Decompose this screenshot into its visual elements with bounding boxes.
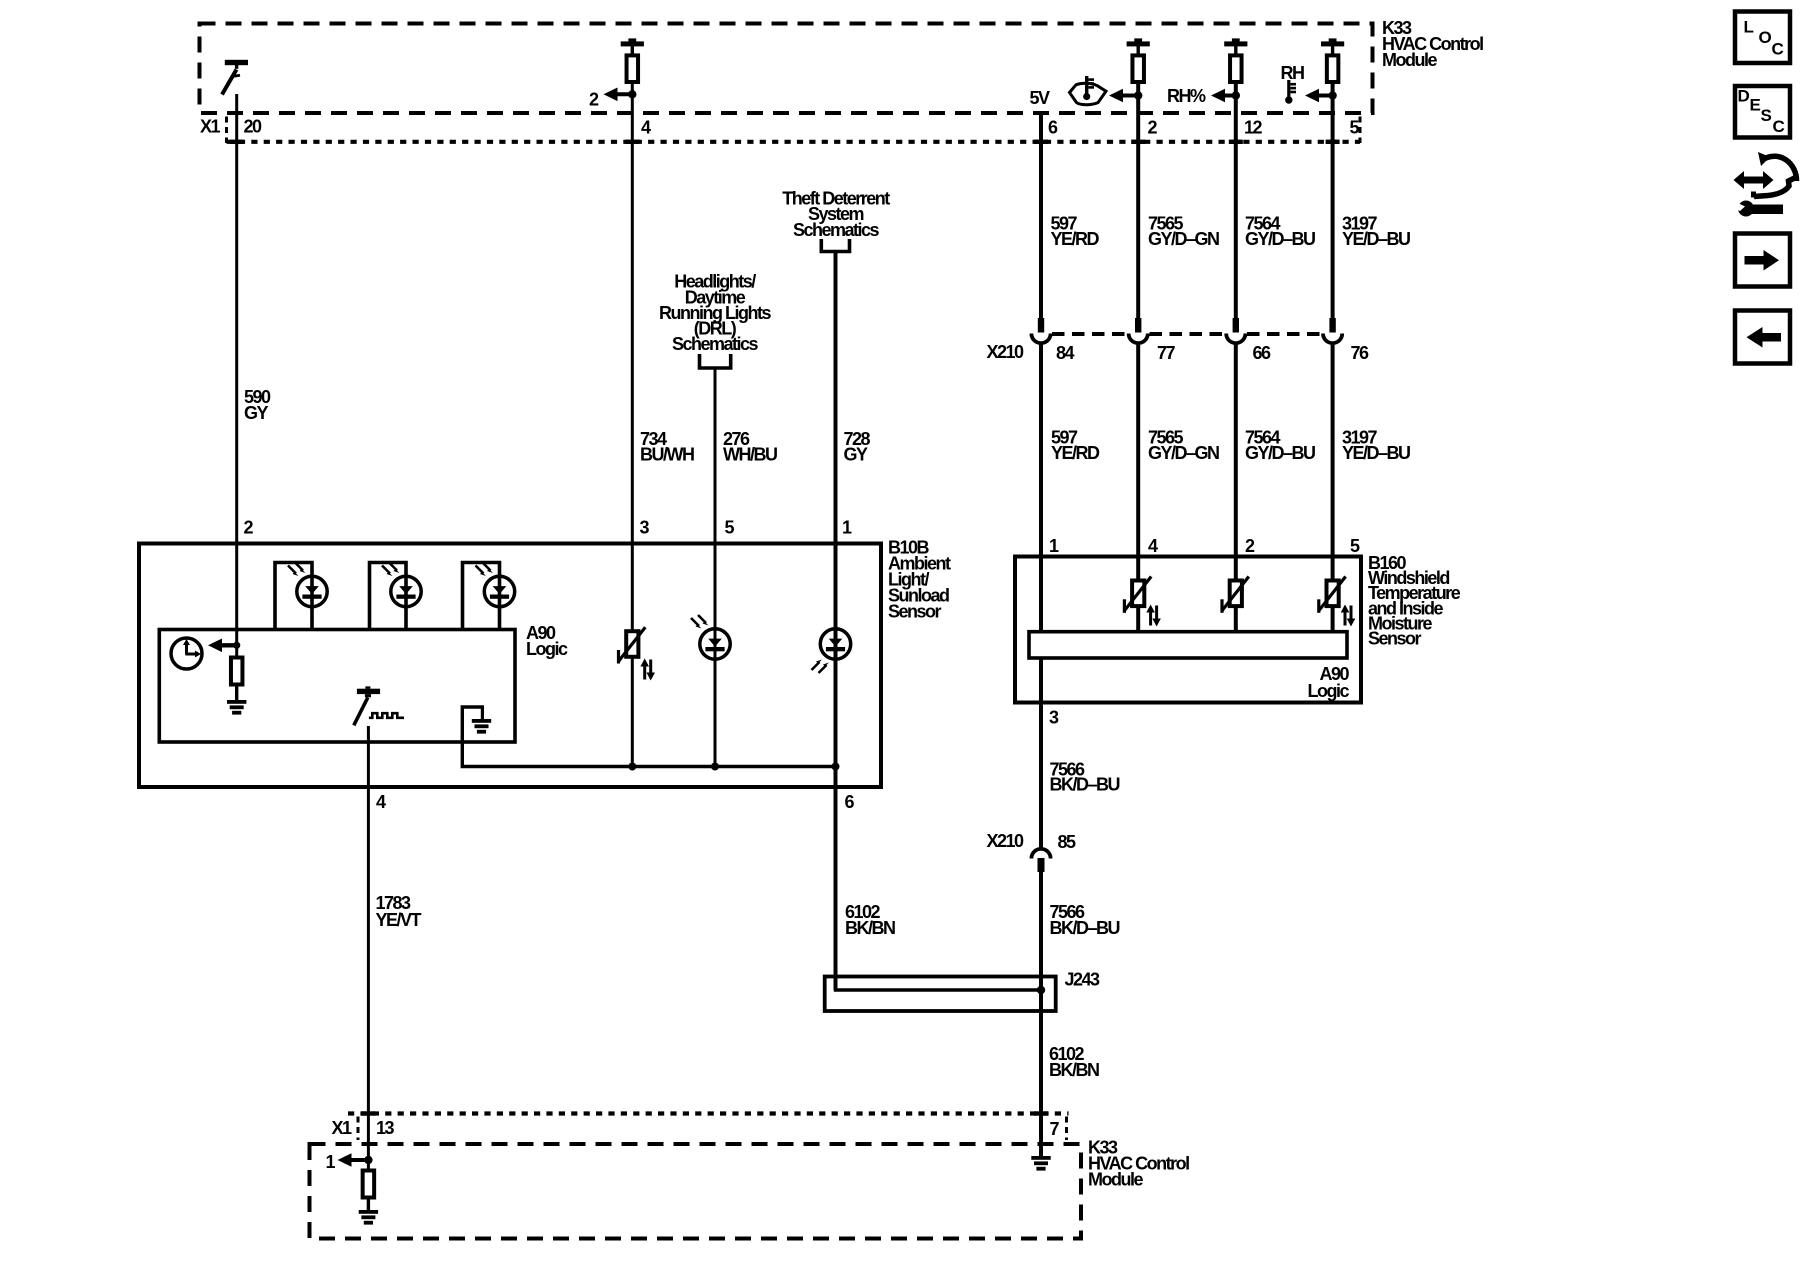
svg-text:76: 76 <box>1351 343 1370 363</box>
svg-text:L: L <box>1744 18 1754 37</box>
resistor (RH% pin 12) <box>1224 38 1247 82</box>
svg-text:RH: RH <box>1281 63 1304 83</box>
photodiode loop 2 <box>370 563 407 630</box>
rays sunload <box>691 615 709 629</box>
thermistor arrows 3 <box>1341 605 1356 627</box>
svg-text:X210: X210 <box>987 342 1025 362</box>
arrow to RH icon <box>1305 89 1333 103</box>
connector X1 dotted line (bottom) <box>348 1111 1069 1115</box>
half box to DRL schematics <box>700 354 731 368</box>
X210 terminal 85 <box>1031 849 1050 872</box>
connector X1 divider left (bottom) <box>357 1117 360 1141</box>
switch S (ignition) top left <box>222 60 248 95</box>
button arrow left <box>1735 311 1790 364</box>
A90 logic bar <box>1029 632 1347 658</box>
svg-text:6: 6 <box>1048 118 1058 138</box>
svg-text:1: 1 <box>1049 536 1059 556</box>
svg-text:728GY: 728GY <box>844 429 871 465</box>
tick on bottom X1 row wire 1783 <box>361 1111 375 1115</box>
wire 3197 YE/D-BU lower <box>1331 344 1335 633</box>
resistor (RH pin 5) <box>1321 38 1344 82</box>
thermistor arrows 1 <box>1146 605 1161 627</box>
svg-text:S: S <box>1761 106 1772 125</box>
svg-text:1: 1 <box>842 518 852 538</box>
svg-text:3: 3 <box>640 518 650 538</box>
node dot bus/728 <box>832 763 840 771</box>
PWM switch in A90 <box>354 686 404 725</box>
svg-text:2: 2 <box>244 518 254 538</box>
wire 276 WH/BU (DRL to B10B pin 5 down to bus) <box>714 368 717 768</box>
svg-text:85: 85 <box>1058 832 1077 852</box>
X210 terminal 76 <box>1323 318 1342 343</box>
wire 7564 GY/D-BU upper <box>1234 84 1238 319</box>
photodiode loop 3 <box>463 563 500 630</box>
wire 7565 GY/D-GN upper <box>1136 84 1140 319</box>
photodiode loop 1 <box>275 563 312 630</box>
tick on X1 row wire 3197 <box>1326 140 1340 144</box>
X210 terminal 84 <box>1031 318 1050 343</box>
X210 dashes between terminals <box>1052 332 1128 336</box>
wire 7564 GY/D-BU lower <box>1234 344 1238 633</box>
svg-text:5: 5 <box>1350 118 1360 138</box>
svg-text:X210: X210 <box>987 831 1025 851</box>
ground bars on hook <box>472 719 491 734</box>
svg-text:E: E <box>1750 96 1761 115</box>
arrow to 1 <box>338 1153 369 1167</box>
connector X1 dotted line (top) <box>227 140 1361 144</box>
rays 728 (lower left) <box>812 660 830 674</box>
tick on X1 row wire 7564 <box>1229 140 1243 144</box>
svg-text:84: 84 <box>1056 343 1075 363</box>
ground under A90 resistor <box>227 700 246 715</box>
svg-text:4: 4 <box>376 792 386 812</box>
connector X1 divider right (bottom) <box>1065 1117 1068 1141</box>
node dot <box>1232 91 1240 99</box>
X210 terminal 66 <box>1226 318 1245 343</box>
svg-text:2: 2 <box>589 89 599 109</box>
svg-text:J243: J243 <box>1065 969 1101 989</box>
node at clock arrow <box>233 642 240 649</box>
photodiode D3 <box>484 576 514 606</box>
photodiode D1 <box>297 576 327 606</box>
RH thermometer icon <box>1285 80 1296 104</box>
photodiode 728 <box>820 629 850 659</box>
resistor R (pin 4 sense) <box>621 38 644 82</box>
svg-text:4: 4 <box>641 118 651 138</box>
thermistor windshield temp <box>1123 577 1151 613</box>
svg-text:5V: 5V <box>1030 88 1051 108</box>
wire 590 GY (pin 20 to B10B pin 2) <box>235 94 238 658</box>
tick on X1 row wire 597 <box>1034 140 1048 144</box>
svg-text:77: 77 <box>1157 343 1176 363</box>
rays D3 <box>476 563 494 577</box>
module box K33 (top) <box>200 24 1373 114</box>
svg-text:2: 2 <box>1245 536 1255 556</box>
svg-text:7: 7 <box>1050 1119 1060 1139</box>
arrow to windshield icon <box>1109 89 1138 103</box>
ground K33 pin 7 <box>1031 1156 1050 1171</box>
svg-text:C: C <box>1772 40 1784 59</box>
A90 logic box <box>159 630 515 743</box>
photodiode D2 <box>391 576 421 606</box>
ground stub under A90 resistor <box>235 687 238 701</box>
chassis ground hook in A90 <box>462 707 835 767</box>
rays D1 <box>288 563 306 577</box>
svg-text:Headlights/DaytimeRunning Ligh: Headlights/DaytimeRunning Lights(DRL)Sch… <box>659 272 771 354</box>
wire 7565 GY/D-GN lower <box>1136 344 1140 633</box>
ground stub bottom K33 <box>367 1199 370 1211</box>
node dot bus/photodiode <box>711 763 719 771</box>
rays D2 <box>382 563 400 577</box>
svg-text:2: 2 <box>1148 118 1158 138</box>
svg-text:66: 66 <box>1253 343 1272 363</box>
wire 597 YE/RD upper (5V pin 6 to X210) <box>1039 112 1043 319</box>
svg-text:D: D <box>1738 87 1750 106</box>
connector X1 divider left <box>225 117 228 144</box>
svg-text:20: 20 <box>244 116 263 136</box>
svg-text:590GY: 590GY <box>244 387 271 423</box>
thermistor arrows <box>640 659 655 681</box>
node dot J243 <box>1037 986 1045 994</box>
node dot <box>1328 91 1336 99</box>
icon swap arrows + wrench <box>1734 152 1797 217</box>
arrow clock to wire <box>208 639 237 653</box>
arrow to RH% <box>1211 89 1236 103</box>
tick on X1 row wire 734 <box>625 140 639 144</box>
module box K33 (bottom) <box>310 1144 1082 1239</box>
node dot under resistor <box>628 90 636 98</box>
resistor (windshield temp pin 2) <box>1127 38 1150 82</box>
clock icon <box>171 638 202 669</box>
wire 597 YE/RD lower (X210 to B160 pin 1 through to pin 3) <box>1039 344 1043 850</box>
arrow to 2 <box>604 88 633 102</box>
svg-text:1: 1 <box>326 1152 336 1172</box>
svg-text:4: 4 <box>1148 536 1158 556</box>
sensor box B10B <box>139 544 881 788</box>
svg-text:5: 5 <box>725 518 735 538</box>
tick on X1 row wire 7565 <box>1131 140 1145 144</box>
node dot arrow 1 <box>364 1156 372 1164</box>
svg-text:X1: X1 <box>332 1118 353 1138</box>
button arrow right <box>1735 234 1790 287</box>
half box to Theft Deterrent schematics <box>821 239 849 252</box>
wire 3197 YE/D-BU upper <box>1331 84 1335 319</box>
svg-text:Module: Module <box>1382 50 1437 70</box>
wire 728 GY (theft deterrent to B10B pin 1/6 to J243) <box>834 252 838 991</box>
splice wire inside J243 <box>836 988 1042 990</box>
wire 1783 YE/VT (A90 switch to K33 pin 13) <box>367 726 370 1170</box>
resistor in A90 <box>231 658 243 685</box>
svg-text:RH%: RH% <box>1167 86 1206 106</box>
thermistor inside temp <box>1317 577 1345 613</box>
sensor box B160 <box>1015 557 1361 703</box>
wire 734 BU/WH (pin 4 to B10B pin 3 down to bus) <box>631 84 634 768</box>
svg-text:13: 13 <box>376 1118 395 1138</box>
svg-text:5: 5 <box>1350 536 1360 556</box>
svg-text:O: O <box>1759 28 1772 47</box>
node dot <box>1134 91 1142 99</box>
photodiode sunload <box>700 629 730 659</box>
svg-text:6: 6 <box>845 792 855 812</box>
X210 terminal 77 <box>1129 318 1148 343</box>
button DESC <box>1735 86 1790 138</box>
svg-text:C: C <box>1773 117 1785 136</box>
windshield temperature icon <box>1070 76 1107 105</box>
svg-text:3: 3 <box>1049 708 1059 728</box>
svg-text:12: 12 <box>1244 118 1263 138</box>
splice pack box J243 <box>825 977 1056 1012</box>
thermistor moisture <box>1220 577 1248 613</box>
button LOC <box>1735 12 1790 64</box>
svg-text:X1: X1 <box>200 116 221 136</box>
ground bottom left <box>359 1210 378 1225</box>
tick on bottom X1 row wire 6102 <box>1034 1111 1048 1115</box>
wire 7566 BK/D-BU lower / 6102 to K33 pin 7 ground <box>1039 872 1043 1157</box>
connector X1 divider right <box>1359 117 1362 144</box>
resistor bottom K33 <box>363 1171 375 1198</box>
thermistor ambient <box>617 627 645 663</box>
node dot bus/thermistor <box>628 763 636 771</box>
tick on X1 row wire 590 <box>230 140 244 144</box>
